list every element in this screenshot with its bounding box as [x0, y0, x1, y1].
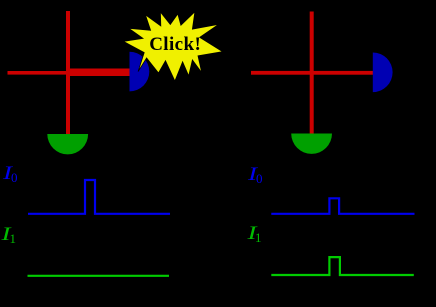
click starburst: [123, 12, 222, 81]
wire: left input beam left (horizontal thin, red): [8, 71, 71, 75]
label I1 left (green): [0, 224, 16, 246]
svg-text:1: 1: [10, 231, 17, 246]
detector D0 right (blue semicircle, right): [373, 53, 393, 93]
wire: left output beam to clicked detector (horizontal thick, red): [68, 69, 130, 77]
wire: right input beam top (vertical, red): [310, 12, 314, 135]
label I0 right (blue): [247, 164, 263, 186]
detector D1 right (green semicircle, bottom): [291, 134, 332, 154]
svg-text:0: 0: [11, 170, 18, 185]
waveform I0 right: blue with small pulse: [271, 198, 414, 214]
waveform I1 left: green flat: [28, 275, 170, 277]
wire: right beam horizontal (red): [251, 71, 373, 75]
detector D0 left (blue semicircle, right): [130, 52, 150, 92]
waveform I0 left: blue with tall pulse: [28, 180, 170, 214]
svg-text:1: 1: [255, 230, 262, 245]
svg-text:Click!: Click!: [149, 34, 201, 55]
label I1 right (green): [246, 223, 261, 245]
waveform I1 right: green with small pulse: [271, 257, 414, 275]
wire: left input beam top (vertical, red): [66, 11, 70, 134]
label I0 left (blue): [2, 163, 18, 185]
svg-text:0: 0: [256, 171, 263, 186]
detector D1 left (green semicircle, bottom): [47, 134, 88, 154]
